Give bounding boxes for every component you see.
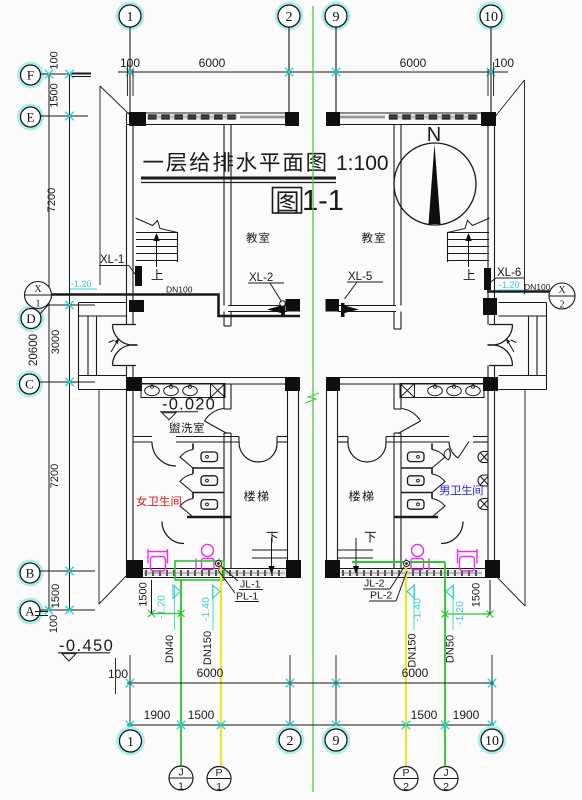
- svg-text:7200: 7200: [49, 464, 61, 488]
- axis circle X/2: [549, 283, 575, 309]
- svg-text:N: N: [427, 124, 441, 146]
- svg-text:1-1: 1-1: [302, 185, 344, 217]
- svg-text:2: 2: [287, 734, 294, 749]
- porch slab upper left: [79, 302, 127, 304]
- bottom extension lines: [129, 655, 131, 729]
- svg-text:-1.20: -1.20: [454, 601, 466, 625]
- urinals right unit: [478, 452, 488, 463]
- canopy outline right vertical: [524, 80, 526, 294]
- svg-text:1500: 1500: [49, 83, 61, 107]
- toilet stall bottom wall left unit: [187, 516, 231, 519]
- svg-text:1500: 1500: [188, 708, 215, 722]
- stair up arrow left unit: [156, 237, 158, 267]
- svg-text:2: 2: [286, 10, 293, 25]
- svg-text:C: C: [25, 377, 34, 392]
- washbasins left unit: [145, 386, 160, 396]
- stair break line right unit: [448, 218, 490, 233]
- entrance arrow left: [111, 340, 118, 352]
- toilet stall front wall right unit: [431, 444, 433, 450]
- bottom wall B axis right unit: [326, 568, 495, 570]
- svg-text:DN150: DN150: [407, 633, 419, 667]
- column axis1/E: [129, 112, 146, 126]
- svg-text:-1.40: -1.40: [412, 598, 424, 622]
- stair up label left: [152, 269, 163, 280]
- entrance arrow right: [507, 340, 514, 352]
- stair stringer right unit: [447, 233, 449, 263]
- stair treads right unit: [447, 232, 489, 234]
- svg-text:3000: 3000: [50, 330, 62, 354]
- classroom label left: [246, 232, 257, 243]
- svg-text:JL-1: JL-1: [240, 579, 261, 591]
- mens toilet label: [439, 485, 449, 495]
- axis circle C: [18, 372, 42, 396]
- down label right stair room: [365, 532, 376, 543]
- C wall right unit: [326, 377, 495, 379]
- green dim line right 1500: [445, 613, 490, 615]
- drain pipe DN100 right: [487, 290, 550, 293]
- wall face offset lines top right: [487, 69, 489, 96]
- window band bottom wall left unit: [144, 570, 285, 576]
- toilets right unit: [408, 452, 425, 462]
- bottom wall B axis left unit: [127, 568, 300, 570]
- dim 1500 left vertical: [151, 580, 153, 614]
- svg-text:F: F: [27, 68, 34, 83]
- down arrow right stair room: [355, 538, 357, 569]
- lintel band top wall right unit: [338, 115, 385, 119]
- svg-text:6000: 6000: [402, 666, 429, 680]
- F axis wall edge mark: [72, 72, 91, 74]
- interior wall classroom divider left unit: [223, 125, 225, 306]
- stair room label right: [349, 490, 360, 501]
- axis grid circle 1 bottom: [118, 728, 144, 754]
- svg-text:6000: 6000: [197, 666, 224, 680]
- toilet area door right unit: [441, 522, 463, 544]
- svg-text:6000: 6000: [199, 56, 226, 70]
- title text: first floor water supply and drainage plan: [143, 161, 163, 163]
- C wall left unit: [127, 377, 300, 379]
- svg-text:XL-5: XL-5: [348, 271, 372, 283]
- mask behind scale text: [333, 147, 384, 174]
- door in divider wall right unit: [401, 409, 421, 422]
- column party-left/D: [286, 299, 301, 312]
- interior wall stub below D right unit: [393, 312, 395, 330]
- svg-text:JL-2: JL-2: [364, 578, 385, 590]
- party wall right unit lower: [326, 384, 328, 578]
- axis line E: [41, 115, 89, 117]
- porch slab lower left: [79, 375, 127, 377]
- squat fixture right unit: [457, 549, 459, 564]
- svg-text:XL-1: XL-1: [100, 254, 124, 266]
- stair steps bottom right unit: [338, 549, 374, 551]
- title underline thick: [141, 177, 336, 180]
- entrance door leaves left: [112, 325, 131, 346]
- axis circle B: [18, 561, 42, 585]
- green supply pipe box left unit: [175, 561, 224, 580]
- interior wall washroom divider left unit: [223, 384, 225, 409]
- stair steps bottom left unit: [252, 549, 288, 551]
- canopy outline top-left diagonal: [100, 86, 132, 117]
- column axis10/E: [481, 112, 496, 126]
- axis line 9 top: [335, 27, 337, 112]
- svg-text:7200: 7200: [46, 188, 58, 212]
- svg-text:DN100: DN100: [166, 285, 193, 295]
- floor drain right unit: [400, 384, 415, 398]
- figure label box around tu: [273, 188, 302, 214]
- axis line B: [40, 570, 95, 572]
- stair room label left: [244, 490, 255, 501]
- porch slab lower right: [499, 375, 547, 377]
- womens toilet label: [137, 496, 147, 507]
- center expansion joint axis green: [312, 6, 314, 792]
- interior wall stub below D left unit: [223, 312, 225, 327]
- pipe circle P/2: [394, 767, 418, 791]
- washroom door left unit: [152, 442, 176, 466]
- svg-text:1: 1: [216, 781, 222, 793]
- washbasins right unit: [428, 386, 443, 396]
- svg-text:1500: 1500: [138, 582, 150, 606]
- stair treads left unit: [136, 232, 178, 234]
- axis line A: [40, 609, 95, 611]
- axis circle D: [19, 307, 43, 331]
- svg-text:XL-2: XL-2: [249, 272, 273, 284]
- axis line D: [40, 305, 48, 314]
- green supply pipe right unit horizontal: [352, 561, 445, 563]
- pipe circle J/1: [169, 766, 193, 790]
- canopy outline bottom-left diagonal: [99, 572, 130, 604]
- washroom door right unit: [449, 442, 458, 459]
- pipe connection circle right: [404, 561, 410, 567]
- mask behind figure label: [267, 185, 346, 214]
- svg-text:10: 10: [484, 10, 498, 25]
- canopy outline bottom-right diagonal: [494, 574, 525, 606]
- classroom label right: [362, 232, 373, 243]
- toilet stall front wall left unit: [192, 444, 194, 450]
- axis circle A: [18, 599, 42, 623]
- axis circle F: [19, 63, 43, 87]
- washroom partition wall right unit: [338, 436, 349, 438]
- svg-text:1900: 1900: [453, 708, 480, 722]
- axis grid circle 10 top: [478, 3, 504, 29]
- svg-text:100: 100: [120, 56, 140, 70]
- svg-text:-1.40: -1.40: [200, 597, 212, 621]
- green supply pipe JL-2 drop: [444, 562, 446, 766]
- riser stub right: [341, 303, 345, 317]
- column axis1/B: [126, 560, 143, 578]
- yellow waste pipe PL-2 drop: [405, 561, 407, 766]
- svg-text:100: 100: [108, 667, 128, 681]
- canopy outline right lower vertical: [524, 390, 526, 606]
- column axis1/D: [129, 300, 144, 312]
- axis grid circle 2 top: [276, 3, 302, 29]
- svg-text:20600: 20600: [28, 334, 40, 366]
- bottom dimension line upper: [127, 682, 494, 684]
- axis grid circle 2 bottom: [277, 727, 303, 753]
- label PL-1: [218, 570, 235, 593]
- entrance door leaves right: [494, 325, 513, 346]
- dim 1500 right vertical: [489, 580, 491, 614]
- svg-text:1900: 1900: [144, 708, 171, 722]
- rain leader XL-6 riser: [484, 268, 491, 290]
- svg-text:2: 2: [403, 781, 409, 793]
- rain leader XL-1 riser: [135, 266, 142, 286]
- axis line 2 top: [288, 27, 290, 112]
- axis grid circle 9 bottom: [323, 727, 349, 753]
- axis line C: [40, 381, 96, 383]
- svg-text:DN150: DN150: [202, 631, 214, 665]
- svg-text:10: 10: [485, 734, 499, 749]
- axis circle E: [19, 105, 43, 129]
- column party-left/B: [286, 560, 301, 578]
- figure label tu glyph: [278, 191, 298, 212]
- window band top wall left unit: [147, 114, 237, 120]
- pipe circle P/1: [207, 767, 231, 791]
- green supply pipe JL-1 drop: [180, 580, 182, 766]
- entrance door jambs right: [489, 324, 513, 326]
- door in divider wall left unit: [205, 409, 225, 422]
- svg-text:XL-6: XL-6: [497, 267, 521, 279]
- svg-text:1:100: 1:100: [336, 152, 389, 175]
- stair break line left unit: [136, 218, 178, 233]
- stair room double door left unit: [238, 437, 240, 444]
- svg-text:1: 1: [178, 781, 184, 793]
- svg-text:100: 100: [49, 51, 61, 69]
- squat fixture left unit: [147, 549, 149, 564]
- left exterior wall (axis 1): [126, 113, 128, 325]
- D wall below classroom left unit: [228, 305, 287, 307]
- left overall dimension line 20600: [48, 74, 50, 610]
- flow arrow PL-2: [407, 585, 415, 599]
- svg-text:P: P: [215, 767, 222, 779]
- pipe taper fitting right: [345, 306, 360, 314]
- axis grid circle 1 top: [117, 3, 143, 29]
- svg-text:2: 2: [560, 300, 565, 311]
- porch edge and steps left: [78, 303, 80, 390]
- svg-text:J: J: [178, 767, 183, 779]
- stair room double door right unit: [347, 437, 349, 444]
- column axis10/C: [483, 377, 498, 391]
- svg-text:DN40: DN40: [164, 635, 176, 663]
- svg-text:DN100: DN100: [524, 282, 551, 292]
- column party-left/C: [285, 377, 300, 391]
- toilet stall partitions right unit: [401, 467, 432, 469]
- column party-right/D: [326, 299, 340, 312]
- down label left stair room: [267, 532, 278, 543]
- svg-text:P: P: [402, 767, 409, 779]
- svg-text:PL-2: PL-2: [370, 590, 392, 602]
- canopy outline left upper vertical: [99, 86, 101, 285]
- column party-right/E: [326, 112, 340, 126]
- toilet stall partitions left unit: [193, 467, 224, 469]
- stair up arrow right unit: [468, 237, 470, 267]
- green dim line left 1500: [152, 613, 182, 615]
- svg-text:D: D: [26, 311, 35, 326]
- entrance door jambs left: [113, 324, 137, 326]
- washbasin counter left unit: [141, 384, 225, 398]
- window band bottom wall right unit: [341, 570, 482, 576]
- svg-text:9: 9: [333, 734, 340, 749]
- column axis10/D: [483, 298, 497, 315]
- svg-text:100: 100: [48, 615, 60, 633]
- axis grid circle 10 bottom: [479, 727, 505, 753]
- svg-text:X: X: [34, 284, 42, 295]
- svg-text:A: A: [25, 604, 35, 619]
- axis circle X/1: [25, 282, 52, 309]
- washroom partition wall left unit: [133, 436, 152, 438]
- svg-text:1: 1: [127, 735, 134, 750]
- title underline thin: [141, 182, 336, 184]
- green axis break symbol: [305, 393, 319, 403]
- svg-text:-1.20: -1.20: [71, 279, 92, 289]
- party wall left unit lower: [287, 384, 289, 578]
- washroom label: [169, 422, 180, 432]
- top wall E axis: [127, 112, 300, 114]
- pipe fitting circle left: [280, 301, 286, 307]
- toilet stall bottom wall right unit: [394, 516, 438, 519]
- svg-text:DN50: DN50: [445, 635, 457, 663]
- interior wall washroom divider right unit: [393, 384, 395, 409]
- top dimension line: [118, 71, 508, 73]
- svg-text:6000: 6000: [400, 56, 427, 70]
- svg-text:-1.20: -1.20: [156, 595, 168, 619]
- svg-text:1500: 1500: [411, 708, 438, 722]
- drain pipe DN100 left: [51, 295, 300, 317]
- stair stringer left unit: [177, 233, 179, 263]
- riser bar left/D: [281, 303, 285, 316]
- mop sink fixture right unit: [412, 545, 424, 557]
- down arrow left stair room: [271, 538, 273, 569]
- flow arrow JL-1: [173, 585, 181, 599]
- interior wall classroom divider right unit: [393, 125, 395, 306]
- porch slab upper right: [499, 302, 547, 304]
- mop sink fixture left unit: [202, 545, 214, 557]
- left segment dimension line: [69, 74, 71, 610]
- column party-right/B: [325, 560, 340, 578]
- svg-text:1: 1: [36, 299, 41, 310]
- pipe taper fitting left: [267, 306, 281, 314]
- svg-text:1: 1: [127, 10, 134, 25]
- A axis ground mark: [35, 611, 48, 613]
- flow arrow JL-2: [446, 585, 454, 599]
- axis line 1 top: [129, 27, 131, 112]
- porch edge and steps right: [546, 303, 548, 390]
- urinal screen right unit: [444, 449, 451, 461]
- bottom dimension line lower: [127, 724, 494, 726]
- lintel band top wall left unit: [240, 115, 287, 119]
- wall face offset lines top left: [126, 62, 128, 96]
- column axis1/C: [127, 377, 142, 391]
- column party-right/C: [326, 377, 340, 391]
- canopy outline top-right diagonal: [494, 80, 525, 118]
- svg-text:2: 2: [443, 781, 449, 793]
- floor drain left unit: [211, 384, 226, 398]
- window band top wall right unit: [388, 114, 478, 120]
- svg-text:PL-1: PL-1: [236, 591, 258, 603]
- toilet area door left unit: [162, 522, 184, 544]
- svg-text:1500: 1500: [50, 584, 62, 608]
- pipe connection circle left: [216, 561, 222, 567]
- axis line 10 top: [490, 27, 492, 112]
- column party-left/E: [285, 112, 299, 126]
- north compass needle: [429, 144, 441, 224]
- svg-text:-1.20: -1.20: [499, 280, 520, 290]
- D wall below classroom right unit: [338, 305, 396, 307]
- toilets left unit: [201, 452, 218, 462]
- label JL-1: [221, 566, 238, 581]
- axis grid circle 9 top: [323, 3, 349, 29]
- svg-text:1500: 1500: [471, 583, 483, 607]
- column axis10/B: [485, 560, 500, 578]
- svg-text:X: X: [558, 285, 566, 296]
- yellow waste pipe PL-1 drop: [220, 561, 222, 766]
- svg-text:E: E: [27, 110, 35, 125]
- stair up label right: [464, 269, 475, 280]
- svg-text:J: J: [443, 767, 448, 779]
- axis line F: [41, 73, 92, 75]
- svg-text:-0.020: -0.020: [162, 396, 216, 414]
- svg-text:B: B: [26, 566, 35, 581]
- washbasin counter right unit: [400, 384, 484, 398]
- svg-text:9: 9: [333, 10, 340, 25]
- north compass circle: [394, 143, 476, 225]
- pipe circle J/2: [434, 767, 458, 791]
- flow arrow PL-1: [213, 585, 221, 599]
- svg-text:100: 100: [494, 56, 514, 70]
- right exterior wall (axis 10): [487, 113, 489, 325]
- canopy outline left lower vertical: [98, 390, 100, 604]
